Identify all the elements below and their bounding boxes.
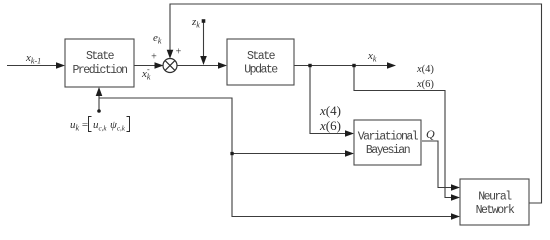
- arrow into State Update: [218, 62, 227, 69]
- arrow z_k down onto wire: [200, 56, 207, 65]
- svg-text:ek: ek: [153, 32, 162, 46]
- block Neural Network: [460, 179, 529, 225]
- wire Neural Network output feedback e_k (right, up, top, down to summer): [170, 4, 542, 203]
- arrowheads: [56, 50, 460, 220]
- svg-text:zk: zk: [191, 16, 200, 30]
- block Variational Bayesian: [354, 120, 421, 165]
- node u_k source dot: [97, 109, 101, 113]
- wire u_k distribution (right, down, to Neural Network): [99, 98, 452, 217]
- svg-text:uk =: uk =: [70, 119, 88, 133]
- svg-text:Network: Network: [476, 204, 515, 217]
- svg-text:x(4): x(4): [319, 103, 341, 118]
- wire Q output of Variational Bayesian to Neural Network: [422, 141, 452, 188]
- svg-text:Neural: Neural: [478, 191, 512, 204]
- node z_k source square: [202, 19, 206, 23]
- svg-text:Update: Update: [244, 64, 278, 77]
- wire branch x(4) x(6) to Neural Network: [354, 66, 452, 198]
- svg-text:x(4): x(4): [416, 64, 434, 75]
- svg-text:+: +: [151, 52, 158, 63]
- svg-text:x(6): x(6): [416, 79, 434, 90]
- wire u_k to Variational Bayesian lower input: [232, 153, 345, 155]
- wire u_k up into State Prediction: [98, 95, 100, 110]
- svg-text:State: State: [86, 50, 115, 63]
- svg-text:x(6): x(6): [319, 118, 341, 133]
- block State Update: [227, 39, 294, 85]
- svg-text:uc,k: uc,k: [93, 119, 107, 133]
- arrow u_k up into State Prediction bottom: [96, 87, 103, 96]
- arrow into State Prediction: [56, 62, 65, 69]
- svg-text:xk: xk: [367, 50, 377, 64]
- junction node on u_k line: [230, 152, 233, 155]
- arrow e_k down into summer: [167, 50, 174, 59]
- wire summer to State Update: [177, 65, 219, 67]
- arrow into summer from left: [155, 62, 164, 69]
- block State Prediction: [65, 39, 134, 87]
- wire State Update output x_k: [294, 65, 388, 67]
- svg-text:State: State: [247, 50, 276, 63]
- arrow Q into Neural Network: [451, 184, 460, 191]
- svg-text:xk-: xk-: [141, 65, 151, 82]
- svg-text:ψc,k: ψc,k: [110, 119, 126, 133]
- wire State Prediction to summer: [134, 65, 156, 67]
- svg-text:+: +: [175, 47, 182, 58]
- wire branch to Variational Bayesian input x(4) x(6): [310, 66, 345, 134]
- junction node on x_k line (to VB): [308, 64, 311, 67]
- junction node on x_k line (to NN): [352, 64, 355, 67]
- arrow x(4) x(6) into Neural Network: [451, 194, 460, 201]
- svg-text:Q: Q: [426, 127, 435, 141]
- summer (summing junction): [163, 59, 177, 73]
- arrow x_k output: [387, 62, 396, 69]
- wire input x_{k-1}: [7, 65, 57, 67]
- arrow into Variational Bayesian upper input: [345, 130, 354, 137]
- svg-text:xk-1: xk-1: [25, 52, 41, 66]
- svg-text:Prediction: Prediction: [72, 64, 127, 77]
- svg-text:Bayesian: Bayesian: [366, 144, 410, 157]
- arrow into Variational Bayesian lower input: [345, 150, 354, 157]
- wire z_k drop: [203, 23, 205, 58]
- arrow u_k into Neural Network: [451, 213, 460, 220]
- svg-text:Variational: Variational: [358, 131, 419, 144]
